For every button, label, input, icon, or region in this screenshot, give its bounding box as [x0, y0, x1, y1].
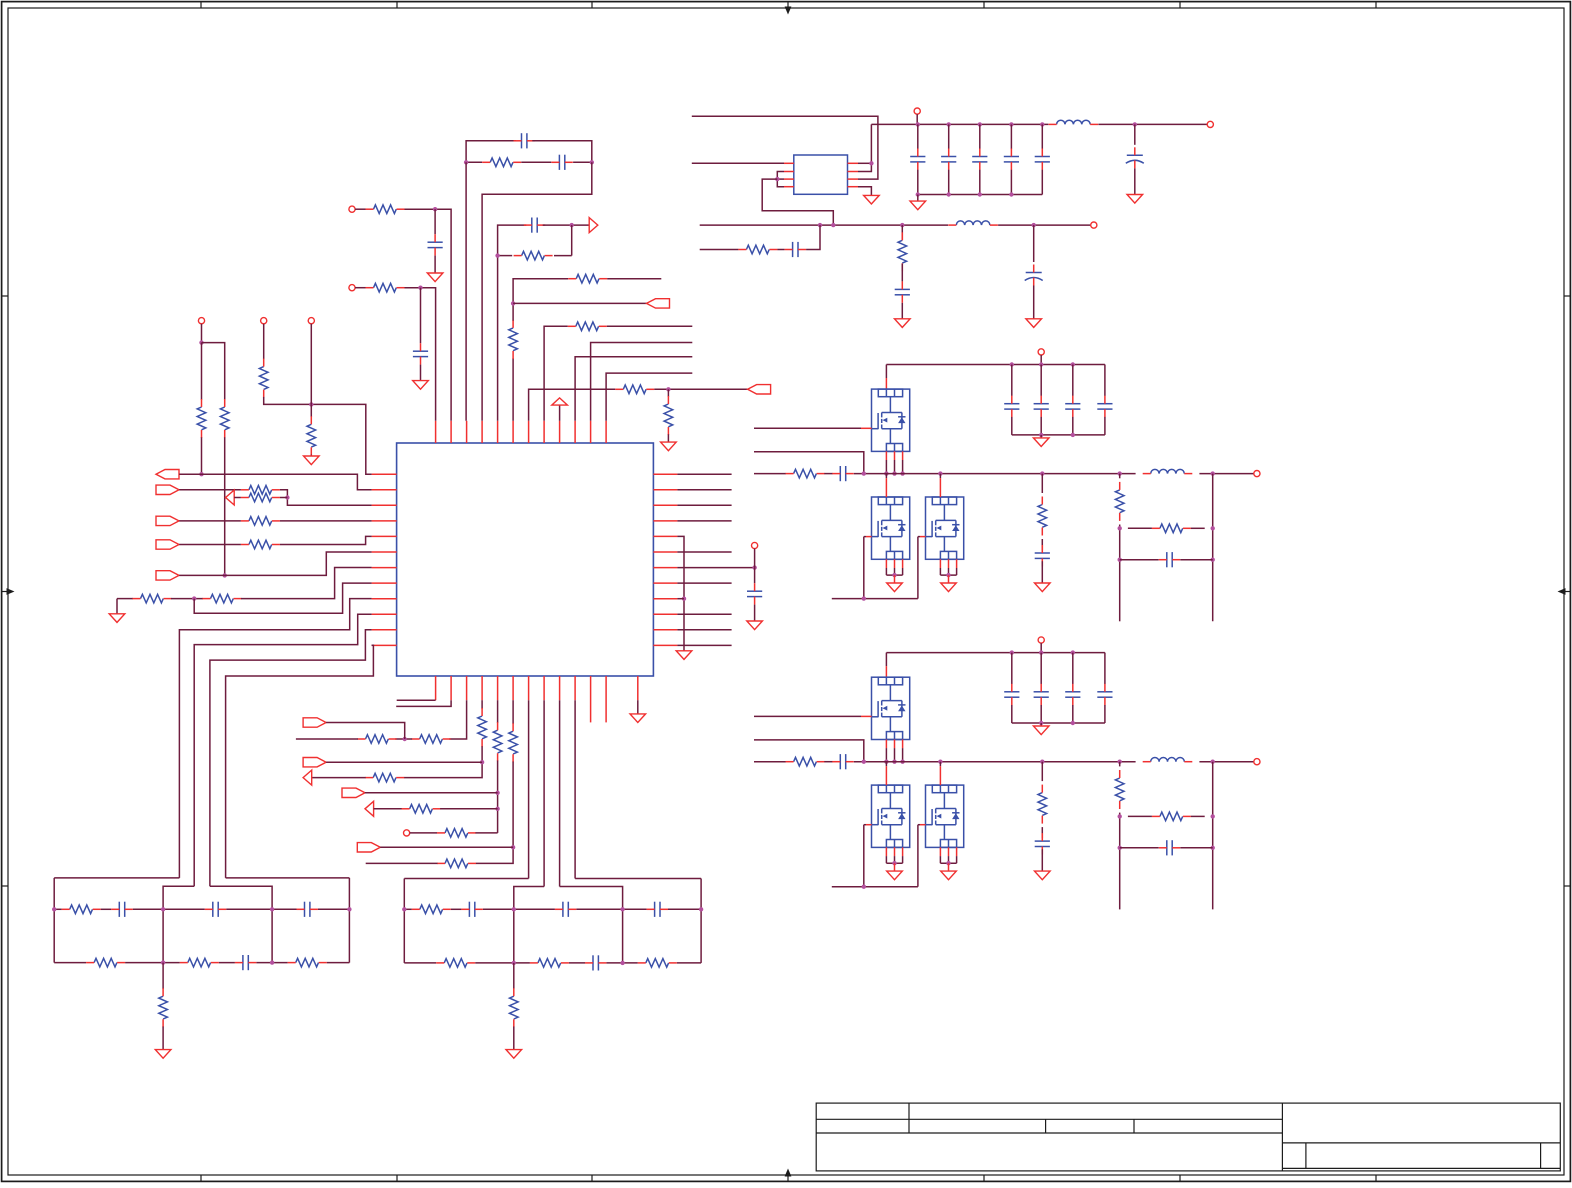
wire cap2 top [979, 124, 981, 148]
wire blk2 gate3 net [918, 824, 920, 826]
arrow A3 [303, 770, 312, 785]
capacitor net1 C bot [235, 955, 256, 970]
wire net2 left edge [403, 879, 405, 963]
wire right row7 net [677, 567, 754, 569]
wire decouple stub [754, 549, 756, 568]
resistor net2 R bot2 [530, 959, 569, 968]
junction J16 [495, 807, 499, 811]
wire rail2 b [998, 224, 1094, 226]
wire blk1 drain rail [886, 364, 1105, 366]
capacitor C5 [413, 343, 428, 364]
wire blk2 Q2 topw [885, 762, 887, 767]
wire rail2 [700, 224, 948, 226]
resistor R29 [738, 245, 777, 254]
wire blk1 Q1 s0 w [885, 460, 887, 474]
resistor net1 R bot1 [86, 958, 125, 967]
wire net c1b [405, 209, 452, 421]
wire arrow row 808 b [440, 808, 498, 810]
junction J8 [199, 472, 203, 476]
pin blk2 Q1 s2 [902, 740, 904, 749]
junction gndbus j2 [978, 192, 982, 196]
off-page connector P1 [349, 206, 355, 212]
pin blk2 Q2 top [885, 766, 887, 785]
capacitor net2 C mid1 [461, 902, 482, 917]
wire U2 en net [762, 179, 833, 225]
wire osc fb row [554, 255, 572, 257]
junction blk1 Q3 js [946, 573, 950, 577]
port flag F2 [156, 485, 179, 494]
wire rdiv c [901, 303, 903, 319]
capacitor C14 [895, 281, 910, 302]
wire fb arrow stub [234, 497, 241, 499]
capacitor blk1 C1 [1034, 396, 1049, 417]
inductor blk1 Lout [1143, 469, 1193, 473]
junction J3 [570, 223, 574, 227]
wire cap branch 2b [420, 365, 422, 381]
wire pin7 drop [528, 700, 530, 878]
wire blk1 capt0 [1011, 365, 1013, 396]
wire blk2 sw rail c [854, 761, 1136, 763]
wire cap4 top [1041, 124, 1043, 148]
wire blk1 capt1 [1040, 365, 1042, 396]
pin blk1 Q3 s1 [948, 559, 950, 568]
pin blk1 Q1 s1 [894, 451, 896, 460]
ground blk2 Q2 G [887, 871, 903, 880]
wire arrow row 808 [374, 808, 403, 810]
junction blk1 jr0 [884, 471, 888, 475]
resistor R16 [358, 735, 397, 744]
ground blk2 G1 [1033, 726, 1049, 735]
wire U2 left tie2 [777, 178, 784, 180]
wire net2 jog R [560, 887, 623, 963]
wire pin9 top [559, 405, 561, 421]
wire right row 4 stub [677, 520, 731, 522]
pin U1 top pin 9 [559, 421, 561, 443]
pin blk1 Q3 s2 [956, 559, 958, 568]
junction net1 jb2 [270, 960, 274, 964]
wire blk1 capb2 [1072, 417, 1074, 435]
pin U1 right pin 10 [653, 613, 677, 615]
resistor R26 [568, 322, 607, 331]
pin blk1 gate3 pin [920, 536, 926, 538]
junction blk2 js3 [1211, 814, 1215, 818]
wire cap3 bot [1010, 170, 1012, 195]
wire flag4 netb [280, 536, 372, 544]
off-page connector blk2 Pout [1254, 759, 1260, 765]
junction gndbus j1 [947, 192, 951, 196]
wire blk1 sw rail b [824, 473, 832, 475]
wire U2 out ties [858, 162, 871, 164]
junction J25 [831, 223, 835, 227]
arrow A1 [589, 218, 598, 233]
pin U1 right pin 7 [653, 567, 677, 569]
pin blk1 Q2 s0 [885, 559, 887, 568]
wire flag3 netb [280, 520, 372, 522]
wire flag row 303 [513, 302, 646, 304]
wire rc series c [806, 225, 820, 249]
pin U1 left pin 8 [372, 582, 397, 584]
pin blk2 gate2 pin [866, 824, 872, 826]
pin U1 bottom pin 2 [450, 676, 452, 700]
wire term fb [194, 583, 371, 613]
resistor blk2 Rs [786, 757, 825, 766]
wire blk1 Q3 s bus [940, 574, 956, 576]
wire term row c [241, 568, 372, 599]
wire row 863 left [366, 862, 438, 864]
junction blk1 je [1211, 471, 1215, 475]
wire circle drop [916, 114, 918, 124]
wire blk1 sense r [1212, 474, 1214, 622]
resistor R15 [412, 735, 451, 744]
pin U1 bottom pin 10 [574, 676, 576, 700]
pin U1 top pin 1 [435, 421, 437, 443]
wire cap branch 1 [434, 209, 436, 234]
port flag F7 [303, 758, 326, 767]
wire XTAL row2 right [573, 161, 592, 163]
junction blk2 jb2 [1071, 721, 1075, 725]
junction net1 jm2 [270, 907, 274, 911]
wire pin6 chain [512, 700, 514, 724]
pin blk1 Q2 s2 [902, 559, 904, 568]
capacitor blk1 Cs [832, 466, 853, 481]
junction J13 [403, 737, 407, 741]
junction J2 [590, 160, 594, 164]
resistor R12 [241, 540, 280, 549]
pin U1 right pin 6 [653, 551, 677, 553]
pin U1 bottom pin 8 [543, 676, 545, 700]
wire pcap2 top [1033, 225, 1035, 262]
resistor R2 [514, 251, 553, 260]
wire blk2 sense cw [1120, 847, 1159, 849]
wire gndbus tail [917, 195, 919, 202]
wire osc out net [498, 225, 527, 421]
junction blk2 je [1211, 760, 1215, 764]
junction rail1 j1 [947, 122, 951, 126]
port flag F6 [303, 718, 326, 727]
wire pin10 top [575, 357, 692, 421]
wire right row9 net [677, 598, 684, 600]
junction blk1 Q2 js [892, 573, 896, 577]
resistor net1 R tail [159, 988, 168, 1027]
wire net1 right edge [348, 878, 350, 963]
wire blk2 sense l2 [1119, 813, 1121, 910]
ground G3 [304, 456, 320, 465]
port flag F3 [156, 516, 179, 525]
wire blk1 sense l [1119, 474, 1121, 479]
pin U1 right pin 3 [653, 504, 677, 506]
wire net1 tail [162, 963, 164, 989]
wire blk2 capb2 [1072, 705, 1074, 723]
pin blk2 Q3 gnd stub [948, 863, 950, 871]
junction J22 [775, 177, 779, 181]
wire net1 tail b [162, 1027, 164, 1050]
wire net2 right edge [700, 879, 702, 963]
ground G13 [1026, 319, 1042, 328]
capacitor blk1 C2 [1065, 396, 1080, 417]
ic U1 [397, 443, 654, 676]
wire blk1 Q3 s2 w [956, 568, 958, 575]
wire XTAL left drop to pin3 [465, 162, 467, 421]
pin blk1 Q3 gnd stub [948, 575, 950, 583]
wire blk2 fb3 [1041, 849, 1043, 871]
capacitor C10 [1004, 149, 1019, 170]
pin blk1 Q1 s2 [902, 451, 904, 460]
junction blk1 jr1 [892, 471, 896, 475]
wire blk2 sense cw2 [1180, 847, 1212, 849]
wire term row a [117, 598, 133, 600]
pin U1 right pin 5 [653, 535, 677, 537]
pin U2 pin L1 [784, 162, 794, 164]
pin U1 left pin 6 [372, 551, 397, 553]
wire cap branch 2 [420, 288, 422, 344]
capacitor net1 C mid2 [205, 902, 226, 917]
junction J19 [752, 565, 756, 569]
junction blk1 jt0 [1010, 362, 1014, 366]
wire blk1 sense cw2 [1180, 559, 1212, 561]
port flag F1 [156, 470, 179, 479]
wire rail1 [871, 123, 1048, 125]
pin U2 pin R1 [848, 162, 859, 164]
wire blk2 capt0 [1011, 653, 1013, 684]
capacitor C7 [910, 149, 925, 170]
ground G8 [661, 442, 677, 451]
capacitor net1 C mid3 [297, 902, 318, 917]
capacitor blk2 Cs [832, 754, 853, 769]
resistor R8 [307, 416, 316, 455]
pin U1 top pin 6 [512, 421, 514, 443]
wire blk1 Q1 s2 w [902, 460, 904, 474]
ground blk1 Q2 G [887, 583, 903, 592]
junction blk1 jt2 [1071, 362, 1075, 366]
junction blk1 jt1 [1039, 362, 1043, 366]
wire decouple stub2 [754, 568, 756, 584]
port flag F4 [156, 540, 179, 549]
junction net2 jm2 [620, 907, 624, 911]
wire blk1 capb1 [1040, 417, 1042, 435]
off-page connector P10 [1091, 222, 1097, 228]
resistor net2 R tail [509, 988, 518, 1027]
wire blk1 gnd stub [1040, 435, 1042, 438]
junction blk1 js3 [1211, 526, 1215, 530]
wire blk1 gate bus [832, 598, 918, 600]
pin U1 left pin 11 [372, 629, 397, 631]
wire blk2 Q1 s0 w [885, 748, 887, 762]
junction rail1 j4 [1040, 122, 1044, 126]
pin U1 bottom pin 13 [637, 676, 639, 700]
wire blk2 gate bus [832, 886, 918, 888]
wire blk2 gate2 net [864, 824, 866, 826]
wire blk2 sense rw [1128, 815, 1152, 817]
wire blk1 sense rw [1128, 527, 1152, 529]
wire circle row 833 b [476, 832, 498, 834]
capacitor C3 [524, 218, 545, 233]
resistor R11 [241, 517, 280, 526]
wire blk1 Q3 s0 w [939, 568, 941, 575]
ground G1 [427, 273, 443, 282]
pin blk1 Q1 s0 [885, 451, 887, 460]
wire rc series b [777, 249, 784, 251]
pin blk1 M top pin [885, 378, 887, 389]
wire osc fb row2 [498, 255, 513, 257]
wire blk2 Q2 s bus [886, 862, 902, 864]
wire net2 top rail L [404, 878, 528, 880]
resistor R13 [133, 594, 172, 603]
wire net2 top rail R [575, 878, 701, 880]
resistor R24 [615, 385, 654, 394]
wire blk2 sw rail [754, 761, 786, 763]
pin U1 top pin 3 [466, 421, 468, 443]
resistor blk2 Rsen [1115, 770, 1124, 809]
wire term row b [171, 598, 203, 600]
wire blk2 Q2 s0 w [885, 856, 887, 863]
wire right row 2 stub [677, 489, 731, 491]
wire XTAL top right [532, 141, 592, 163]
pin blk2 Q2 gnd stub [894, 863, 896, 871]
wire blk1 Q2 s bus [886, 574, 902, 576]
ground G6 [676, 651, 692, 660]
resistor net2 R mid [412, 905, 451, 914]
wire arrow row 777 [312, 777, 366, 779]
ground blk2 Gf [1035, 871, 1051, 880]
off-page connector blk1 Pv [1038, 349, 1044, 355]
resistor R21 [437, 829, 476, 838]
ground G11 [1127, 195, 1143, 204]
junction blk2 jb1 [1039, 721, 1043, 725]
junction blk2 Q3 js [946, 861, 950, 865]
port flag F5 [156, 571, 179, 580]
wire blk2 drain drop [885, 653, 887, 667]
wire cap4 bot [1041, 170, 1043, 195]
wire bus row9 [179, 599, 371, 878]
wire pull net Cc [310, 455, 312, 456]
wire blk2 fb1 [1041, 762, 1043, 781]
capacitor blk1 Cf [1035, 545, 1050, 566]
polarized capacitor C12 [1126, 147, 1144, 168]
capacitor net2 C bot [585, 955, 606, 970]
arrow A2 [226, 490, 235, 505]
junction J26 [900, 223, 904, 227]
polarized capacitor C15 [1025, 265, 1043, 286]
resistor R6 [220, 399, 229, 438]
capacitor C13 [785, 242, 806, 257]
wire net2 tail b [513, 1027, 515, 1050]
wire pin9 drop [559, 700, 561, 886]
wire pin4 chain b [404, 746, 482, 777]
capacitor C6 [747, 583, 762, 604]
wire pin6 top [512, 358, 514, 421]
wire net2 bottom rail [404, 962, 701, 964]
wire bus row12 [226, 645, 374, 878]
junction blk2 js4 [1211, 846, 1215, 850]
off-page connector P7 [752, 542, 758, 548]
wire blk1 capt3 [1104, 365, 1106, 396]
pin U1 top pin 7 [528, 421, 530, 443]
off-page connector P8 [1207, 121, 1213, 127]
pin blk2 Q2 s1 [894, 847, 896, 856]
wire osc fb vertical [571, 225, 573, 256]
wire pin4 chain [481, 700, 483, 709]
junction J6 [418, 286, 422, 290]
wire blk1 sw rail d [1199, 473, 1257, 475]
pin U1 bottom pin 11 [590, 676, 592, 722]
wire pcap2 bot [1033, 286, 1035, 319]
wire blk1 gate2 drop [863, 537, 865, 599]
wire blk1 Q1 s1 w [894, 460, 896, 474]
pin blk2 gate1 pin [861, 715, 872, 717]
wire circle row 833 [410, 832, 437, 834]
wire cap1 bot [948, 170, 950, 195]
junction gndbus j3 [1009, 192, 1013, 196]
pin U2 pin L2 [784, 171, 794, 173]
wire flag6 net [326, 723, 405, 740]
inductor blk2 Lout [1143, 758, 1193, 762]
wire blk1 sw rail c [854, 473, 1136, 475]
wire rdiv b [901, 264, 903, 282]
wire blk1 Q2 s2 w [902, 568, 904, 575]
pin U1 bottom pin 4 [481, 676, 483, 700]
wire net1 mid rail [54, 908, 349, 910]
pin blk2 Q3 s2 [956, 847, 958, 856]
wire blk1 en net [754, 452, 864, 474]
wire rail1 gnd bus [918, 194, 1043, 196]
wire right row 8 stub [677, 582, 731, 584]
pin blk1 gate1 pin [861, 427, 872, 429]
wire pin10 drop [574, 700, 576, 878]
ground net1 GND [155, 1050, 171, 1059]
wire blk2 gate1 net [754, 715, 861, 717]
wire cap0 top [917, 124, 919, 148]
pin U2 pin R3 [848, 178, 859, 180]
wire net1 jog R [210, 886, 272, 962]
wire blk2 drain rail [886, 652, 1105, 654]
wire blk2 capb1 [1040, 705, 1042, 723]
wire blk1 sw rail [754, 473, 786, 475]
junction blk2 jt1 [1039, 650, 1043, 654]
wire pull branch A2b [224, 437, 226, 575]
wire pull net C [310, 324, 312, 405]
resistor R23 [437, 859, 476, 868]
wire pull branch A1b [201, 437, 203, 474]
junction J21 [511, 301, 515, 305]
wire net c1 [355, 208, 365, 210]
junction net2 jb1 [512, 961, 516, 965]
pin U1 bottom pin 7 [528, 676, 530, 700]
wire blk1 Q3 s1 w [948, 568, 950, 575]
wire right row 6 stub [677, 551, 731, 553]
wire blk2 Q3 s2 w [956, 856, 958, 863]
capacitor blk2 Cf [1035, 833, 1050, 854]
junction net2 jm0 [402, 907, 406, 911]
capacitor net2 C mid2 [555, 902, 576, 917]
pin blk1 Q3 s0 [939, 559, 941, 568]
wire pull net B [263, 324, 265, 360]
wire blk1 drain drop [885, 365, 887, 379]
resistor R22 [509, 723, 518, 762]
wire blk1 capb0 [1011, 417, 1013, 435]
capacitor C8 [941, 149, 956, 170]
pin blk2 Q3 s0 [939, 847, 941, 856]
wire cap2 bot [979, 170, 981, 195]
wire decouple stub3 [754, 605, 756, 621]
junction blk2 jt0 [1010, 650, 1014, 654]
resistor blk1 Rsen [1115, 482, 1124, 521]
pin blk1 Q3 top [939, 478, 941, 497]
off-page connector blk1 Pout [1254, 471, 1260, 477]
transistor blk1 Q2 [872, 497, 910, 559]
off-page connector P9 [914, 108, 920, 114]
off-page connector P5 [308, 318, 314, 324]
junction J4 [495, 253, 499, 257]
